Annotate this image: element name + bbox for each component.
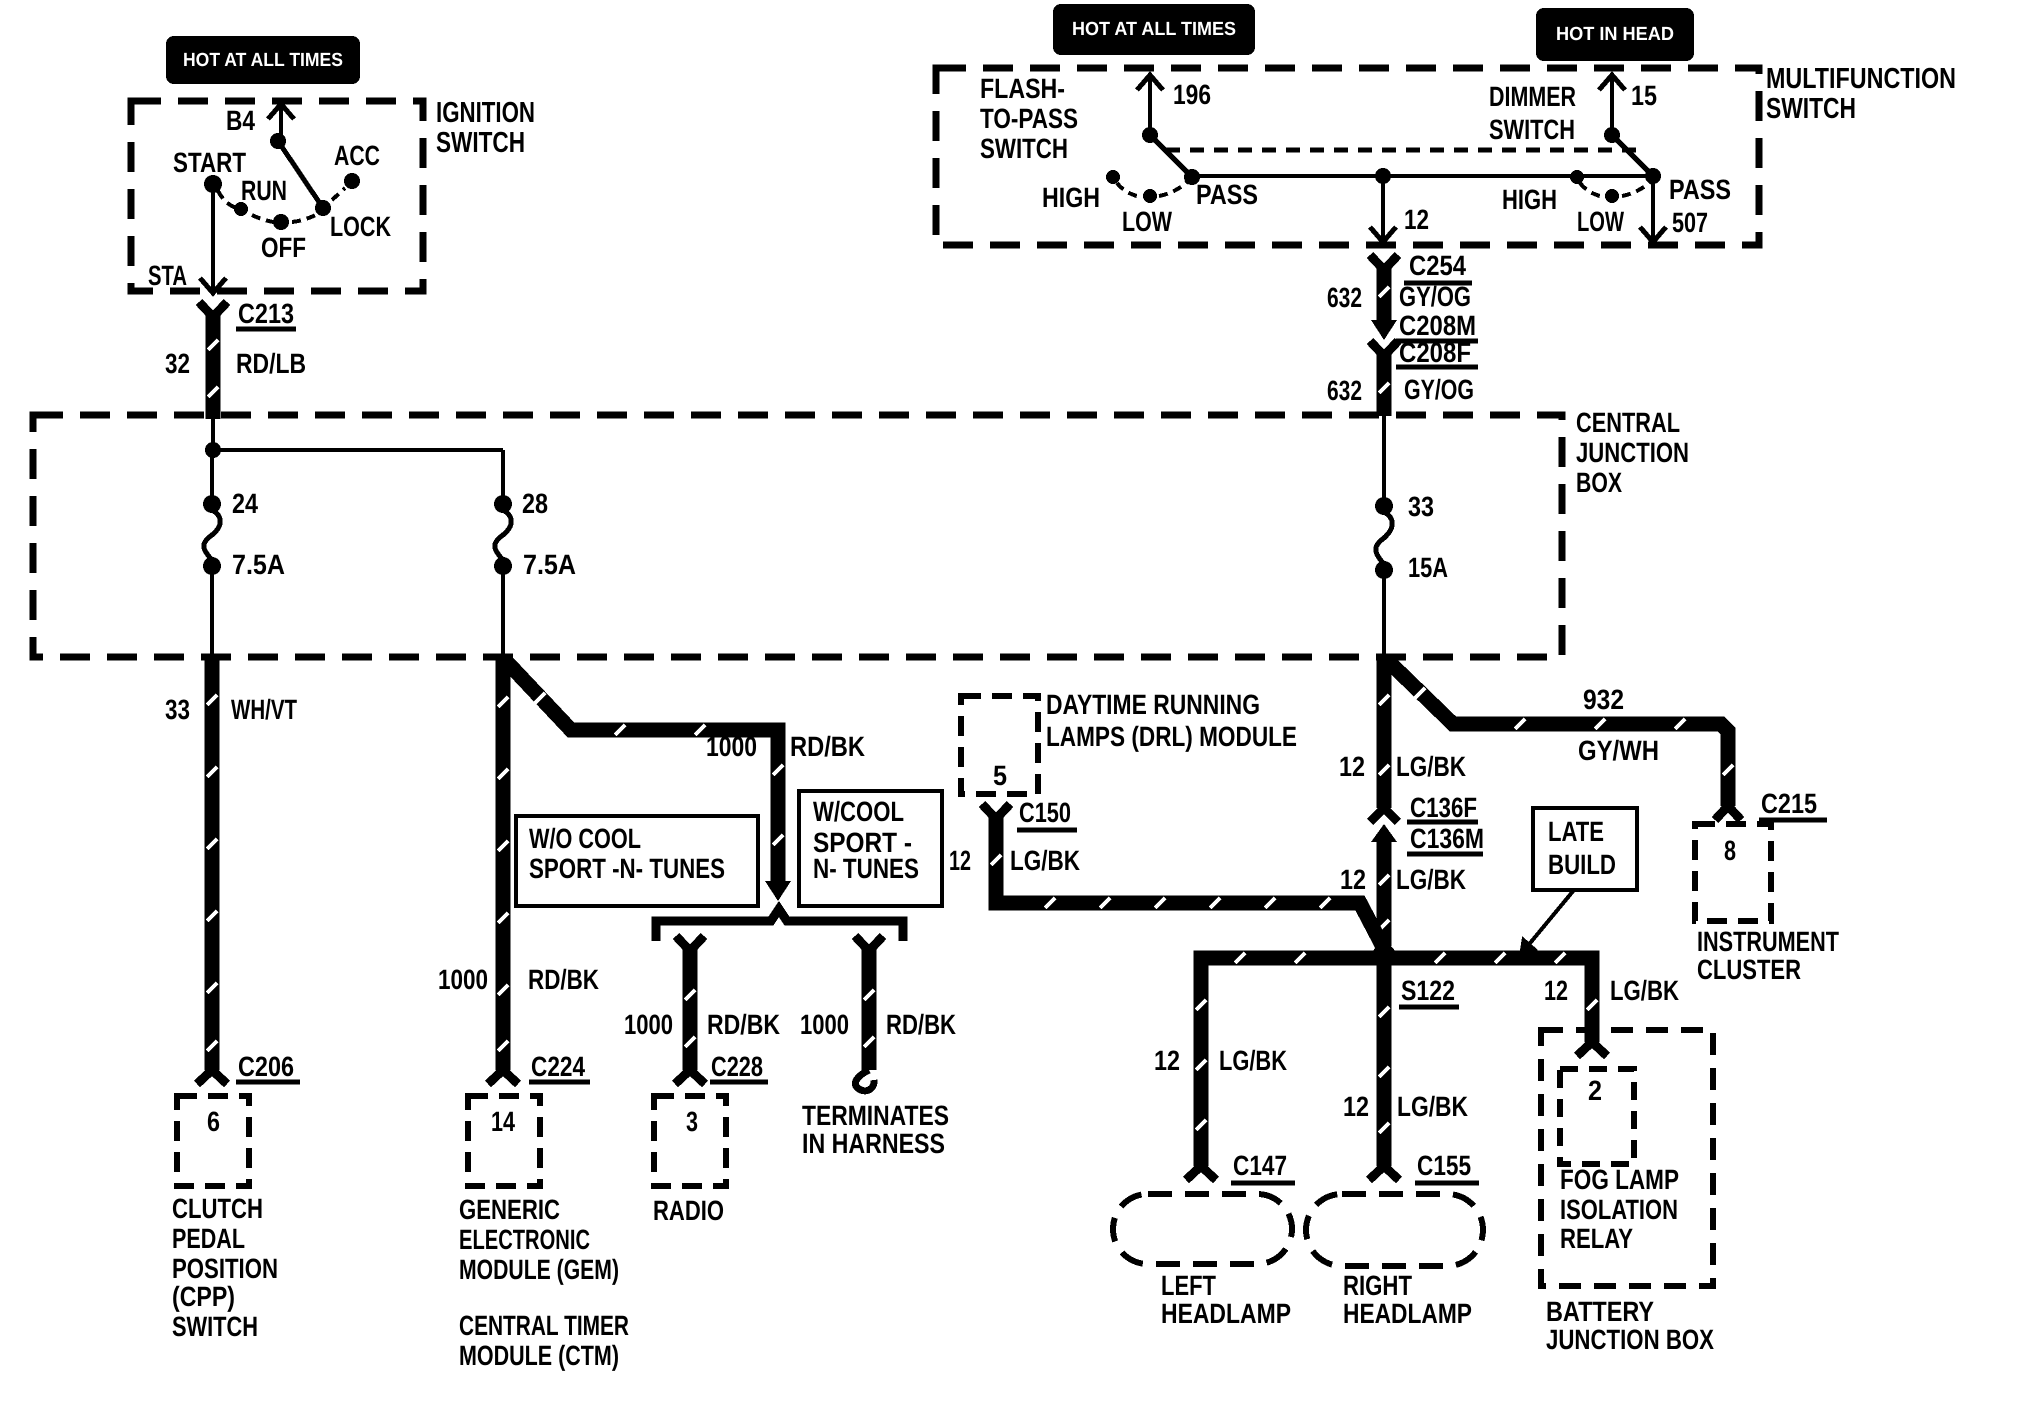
svg-text:932: 932 [1583, 684, 1624, 715]
svg-text:SWITCH: SWITCH [1489, 114, 1575, 145]
svg-text:C155: C155 [1417, 1150, 1471, 1181]
svg-text:BATTERY: BATTERY [1546, 1296, 1654, 1327]
svg-text:24: 24 [232, 488, 258, 519]
svg-text:LG/BK: LG/BK [1396, 864, 1466, 895]
svg-text:196: 196 [1173, 79, 1211, 110]
svg-text:1000: 1000 [624, 1009, 673, 1040]
svg-text:JUNCTION BOX: JUNCTION BOX [1546, 1324, 1714, 1355]
svg-text:OFF: OFF [261, 232, 306, 263]
svg-text:12: 12 [1343, 1091, 1369, 1122]
svg-text:LG/BK: LG/BK [1610, 975, 1679, 1006]
svg-text:IN HARNESS: IN HARNESS [802, 1128, 945, 1159]
svg-text:C136F: C136F [1410, 792, 1477, 823]
svg-text:FOG LAMP: FOG LAMP [1560, 1164, 1679, 1195]
svg-text:RD/BK: RD/BK [528, 964, 599, 995]
svg-text:PASS: PASS [1196, 179, 1258, 210]
svg-text:GY/OG: GY/OG [1399, 281, 1471, 312]
svg-text:LAMPS (DRL) MODULE: LAMPS (DRL) MODULE [1046, 721, 1297, 752]
svg-text:LG/BK: LG/BK [1010, 845, 1080, 876]
svg-text:BOX: BOX [1576, 467, 1622, 498]
svg-text:W/O COOL: W/O COOL [529, 823, 641, 854]
svg-text:5: 5 [993, 760, 1007, 791]
svg-text:S122: S122 [1401, 975, 1455, 1006]
svg-text:RD/BK: RD/BK [790, 731, 865, 762]
svg-text:RUN: RUN [241, 175, 287, 206]
svg-text:HEADLAMP: HEADLAMP [1343, 1298, 1472, 1329]
svg-text:12: 12 [1339, 751, 1365, 782]
svg-text:GENERIC: GENERIC [459, 1194, 560, 1225]
svg-text:W/COOL: W/COOL [813, 796, 904, 827]
svg-text:DIMMER: DIMMER [1489, 81, 1576, 112]
svg-text:START: START [173, 147, 246, 178]
svg-text:SWITCH: SWITCH [172, 1311, 258, 1342]
svg-text:GY/WH: GY/WH [1578, 735, 1659, 766]
svg-text:3: 3 [686, 1106, 698, 1137]
svg-text:RELAY: RELAY [1560, 1223, 1633, 1254]
svg-text:TO-PASS: TO-PASS [980, 103, 1078, 134]
svg-text:LOCK: LOCK [330, 211, 391, 242]
svg-text:B4: B4 [226, 105, 255, 136]
svg-text:C147: C147 [1233, 1150, 1287, 1181]
svg-text:C224: C224 [531, 1051, 585, 1082]
svg-text:7.5A: 7.5A [232, 549, 285, 580]
svg-text:28: 28 [522, 488, 548, 519]
svg-text:14: 14 [491, 1106, 515, 1137]
svg-text:2: 2 [1588, 1075, 1602, 1106]
svg-text:JUNCTION: JUNCTION [1576, 437, 1689, 468]
svg-text:LEFT: LEFT [1161, 1270, 1216, 1301]
svg-text:1000: 1000 [438, 964, 488, 995]
svg-text:MODULE (GEM): MODULE (GEM) [459, 1254, 619, 1285]
svg-text:LOW: LOW [1122, 206, 1172, 237]
svg-text:TERMINATES: TERMINATES [802, 1100, 949, 1131]
svg-text:7.5A: 7.5A [523, 549, 576, 580]
svg-text:33: 33 [165, 694, 190, 725]
svg-text:HOT AT ALL TIMES: HOT AT ALL TIMES [1072, 19, 1236, 40]
svg-text:GY/OG: GY/OG [1404, 374, 1474, 405]
svg-text:507: 507 [1672, 207, 1708, 238]
svg-text:LATE: LATE [1548, 816, 1604, 847]
svg-text:WH/VT: WH/VT [231, 694, 297, 725]
svg-text:BUILD: BUILD [1548, 849, 1616, 880]
svg-text:C206: C206 [238, 1051, 294, 1082]
svg-text:RD/BK: RD/BK [886, 1009, 956, 1040]
svg-text:STA: STA [148, 260, 187, 291]
svg-text:15: 15 [1631, 80, 1657, 111]
svg-text:8: 8 [1724, 835, 1736, 866]
svg-text:CENTRAL TIMER: CENTRAL TIMER [459, 1310, 629, 1341]
svg-text:POSITION: POSITION [172, 1253, 278, 1284]
svg-text:HOT IN HEAD: HOT IN HEAD [1556, 24, 1674, 45]
svg-text:C150: C150 [1019, 797, 1071, 828]
svg-text:1000: 1000 [706, 731, 757, 762]
svg-text:1000: 1000 [800, 1009, 849, 1040]
svg-text:HEADLAMP: HEADLAMP [1161, 1298, 1291, 1329]
svg-text:6: 6 [207, 1106, 220, 1137]
svg-text:12: 12 [1340, 864, 1366, 895]
svg-text:N- TUNES: N- TUNES [813, 853, 919, 884]
svg-text:CLUTCH: CLUTCH [172, 1193, 263, 1224]
svg-text:LG/BK: LG/BK [1219, 1045, 1287, 1076]
svg-text:33: 33 [1408, 491, 1434, 522]
svg-text:INSTRUMENT: INSTRUMENT [1697, 926, 1839, 957]
svg-text:MULTIFUNCTION: MULTIFUNCTION [1766, 63, 1956, 95]
svg-text:HIGH: HIGH [1042, 182, 1100, 213]
svg-text:PASS: PASS [1669, 174, 1731, 205]
svg-text:PEDAL: PEDAL [172, 1223, 245, 1254]
svg-text:HOT AT ALL TIMES: HOT AT ALL TIMES [183, 50, 343, 71]
svg-text:12: 12 [949, 845, 971, 876]
svg-text:632: 632 [1327, 375, 1362, 406]
svg-text:SPORT -N- TUNES: SPORT -N- TUNES [529, 853, 725, 884]
svg-text:(CPP): (CPP) [172, 1281, 235, 1312]
svg-text:C136M: C136M [1410, 823, 1484, 854]
svg-text:C215: C215 [1761, 788, 1817, 819]
svg-text:CLUSTER: CLUSTER [1697, 954, 1801, 985]
svg-text:ISOLATION: ISOLATION [1560, 1194, 1678, 1225]
svg-text:DAYTIME RUNNING: DAYTIME RUNNING [1046, 689, 1260, 720]
svg-text:SWITCH: SWITCH [980, 133, 1068, 164]
svg-text:SWITCH: SWITCH [1766, 93, 1856, 125]
svg-text:FLASH-: FLASH- [980, 73, 1065, 104]
svg-text:RADIO: RADIO [653, 1195, 724, 1226]
svg-text:LG/BK: LG/BK [1397, 1091, 1468, 1122]
svg-text:CENTRAL: CENTRAL [1576, 407, 1680, 438]
svg-text:ELECTRONIC: ELECTRONIC [459, 1224, 590, 1255]
svg-text:SWITCH: SWITCH [436, 127, 525, 159]
svg-text:12: 12 [1544, 975, 1568, 1006]
svg-text:IGNITION: IGNITION [436, 97, 535, 129]
svg-text:RD/LB: RD/LB [236, 348, 306, 379]
svg-text:C254: C254 [1409, 250, 1466, 281]
svg-text:12: 12 [1404, 204, 1429, 235]
svg-text:C208F: C208F [1399, 337, 1471, 368]
svg-text:RIGHT: RIGHT [1343, 1270, 1412, 1301]
svg-text:ACC: ACC [334, 140, 380, 171]
svg-text:C228: C228 [711, 1051, 763, 1082]
svg-text:LG/BK: LG/BK [1396, 751, 1466, 782]
svg-text:LOW: LOW [1577, 206, 1624, 237]
svg-text:HIGH: HIGH [1502, 184, 1557, 215]
svg-text:C213: C213 [238, 298, 294, 329]
svg-text:32: 32 [165, 348, 190, 379]
svg-text:RD/BK: RD/BK [707, 1009, 780, 1040]
svg-text:15A: 15A [1408, 552, 1448, 583]
svg-text:12: 12 [1154, 1045, 1180, 1076]
svg-text:632: 632 [1327, 282, 1362, 313]
svg-text:MODULE (CTM): MODULE (CTM) [459, 1340, 619, 1371]
